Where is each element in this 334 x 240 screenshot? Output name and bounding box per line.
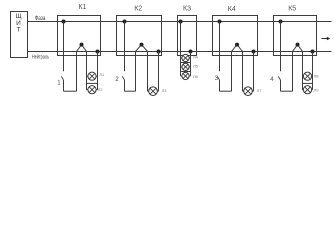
svg-text:Л8: Л8 [314, 73, 320, 78]
svg-text:Л1: Л1 [99, 72, 105, 77]
svg-text:Нейтраль: Нейтраль [32, 54, 49, 61]
svg-text:Л5: Л5 [193, 64, 199, 69]
svg-text:Л2: Л2 [98, 87, 104, 92]
svg-text:Т: Т [17, 27, 21, 34]
svg-text:К3: К3 [183, 6, 191, 13]
svg-text:Л4: Л4 [193, 55, 199, 60]
svg-text:Л9: Л9 [314, 87, 320, 92]
svg-text:К5: К5 [288, 5, 296, 12]
svg-text:К2: К2 [134, 6, 142, 13]
svg-text:Л3: Л3 [162, 88, 168, 93]
svg-text:Л7: Л7 [257, 88, 263, 93]
svg-text:К4: К4 [228, 6, 236, 13]
svg-text:Фаза: Фаза [35, 16, 46, 22]
svg-text:Л6: Л6 [193, 74, 199, 79]
svg-text:К1: К1 [79, 4, 87, 11]
